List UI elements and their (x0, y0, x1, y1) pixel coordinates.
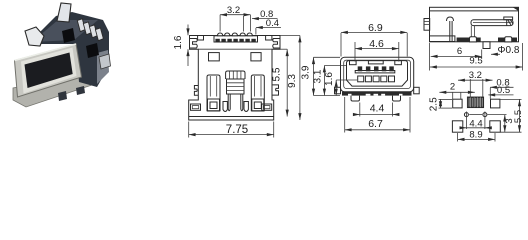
photo top facet highlight (32, 20, 98, 42)
side view shell edge (447, 17, 454, 42)
dimension 4.6 (front) (355, 38, 399, 62)
svg-text:0.5: 0.5 (497, 85, 510, 96)
dimension 6.9 (front) (341, 22, 407, 57)
top view pin tab (214, 33, 258, 42)
front view inner opening (347, 61, 408, 87)
svg-text:Φ0.8: Φ0.8 (498, 45, 520, 56)
photo lead top-left bent (25, 27, 44, 46)
photo black bump 2 (86, 43, 99, 58)
dimension 5.5 (footprint) (499, 99, 524, 132)
photo of mini-USB connector (13, 3, 111, 107)
photo opening rim (21, 48, 77, 94)
dimension 1.6 (front) (314, 72, 358, 96)
dimension 3.2 (top view) (220, 5, 250, 32)
svg-text:6.7: 6.7 (368, 118, 383, 130)
svg-text:1.6: 1.6 (324, 72, 335, 86)
dimension 8.9 (footprint) (458, 129, 495, 141)
dimension 0.8 (top view) (243, 9, 277, 31)
side view body (430, 7, 519, 42)
svg-text:9.5: 9.5 (469, 55, 482, 66)
svg-text:2.5: 2.5 (429, 97, 440, 111)
side view bottom pads (457, 38, 517, 42)
top view interior square right (251, 53, 261, 61)
photo base plate (13, 74, 92, 107)
svg-text:4.4: 4.4 (370, 103, 385, 115)
svg-text:5.5: 5.5 (513, 110, 524, 123)
top view left mid clip (194, 86, 198, 96)
dimension 3.2 (footprint) (458, 70, 493, 97)
dimension 3.1 (front) (312, 66, 346, 96)
dimension 5.5 (top view) (271, 49, 289, 116)
dimension 3.9 (front) (301, 57, 340, 95)
front view shell mid wall (344, 60, 411, 88)
front view inner notch center (368, 61, 383, 64)
front view leg right (393, 96, 401, 101)
front view contacts dark (358, 66, 394, 71)
dimension Φ0.8 (side) (491, 45, 520, 56)
front view contact bar (355, 71, 395, 73)
top view center contact (226, 71, 245, 111)
photo shell top edge highlight (15, 44, 77, 61)
svg-text:9.3: 9.3 (287, 74, 298, 88)
dimension 0.4 (top view) (256, 18, 281, 34)
top view left clip notch (190, 39, 198, 49)
photo right side face (97, 50, 109, 84)
photo black bump 1 (62, 28, 75, 43)
footprint pad upper-left (453, 99, 462, 108)
svg-text:3.9: 3.9 (301, 65, 312, 79)
photo front shell (15, 44, 82, 97)
svg-text:2: 2 (450, 81, 455, 92)
top view cap bottom line (198, 48, 272, 50)
photo lead tall top (57, 3, 71, 22)
top view body outline (189, 36, 280, 121)
front view contact windows (358, 76, 395, 82)
side view front lip (424, 19, 430, 31)
dimension 0.8 (footprint) (490, 77, 514, 98)
side view feet (470, 37, 477, 42)
photo dark plastic body (28, 12, 109, 87)
svg-text:1.6: 1.6 (173, 35, 184, 49)
top view left notch square (198, 36, 204, 41)
top view right clip notch (273, 39, 280, 49)
top view right contact (244, 75, 264, 112)
svg-text:8.9: 8.9 (469, 129, 482, 140)
footprint pad lower-left (452, 121, 462, 132)
svg-text:3.2: 3.2 (227, 5, 240, 16)
dimension 9.5 (side) (430, 43, 523, 71)
front view side tab left (335, 87, 341, 94)
photo opening dark (25, 53, 73, 89)
dimension 2.5 (footprint) (429, 97, 452, 111)
front view shell outline (341, 57, 414, 92)
footprint hole right (469, 112, 487, 118)
side view bottom block (430, 36, 455, 42)
top view corner pad right (262, 104, 272, 110)
photo base feet (58, 91, 67, 101)
top view right mid clip (272, 85, 279, 95)
dimension 9.3 (top view) (280, 36, 302, 121)
svg-text:6: 6 (457, 46, 462, 57)
dimension 1.6 (top view) (173, 25, 190, 67)
dimension 3 (footprint) (488, 115, 515, 133)
top view interior square left (209, 53, 220, 61)
dimension 6.7 (front) (345, 97, 410, 133)
photo right lower lead (99, 54, 111, 69)
svg-text:3.1: 3.1 (312, 69, 323, 83)
footprint center pads (467, 97, 483, 108)
front view inner notch right (395, 61, 402, 65)
footprint pad lower-right (490, 121, 501, 132)
svg-text:5.5: 5.5 (271, 67, 282, 81)
footprint hole left (464, 112, 468, 118)
front view bottom band (342, 92, 412, 96)
top view corner pad left (191, 104, 201, 110)
dimension 6 (side) (431, 46, 482, 59)
dimension 4.4 (front) (353, 103, 400, 117)
footprint pad upper-right (491, 99, 500, 108)
side view contact bar (471, 17, 513, 37)
photo small leads row (77, 19, 103, 41)
dimension 2 (footprint) (439, 81, 474, 99)
front view inner notch left (350, 61, 357, 65)
front view leg left (351, 96, 360, 101)
front view side tab right (414, 87, 420, 94)
side view peg (483, 42, 490, 49)
dimension 4.4 (footprint) (460, 118, 492, 130)
svg-text:7.75: 7.75 (226, 124, 248, 136)
dimension 0.5 (footprint) (488, 85, 513, 96)
top view right notch square (266, 36, 272, 41)
top view left contact (207, 75, 227, 112)
dimension 7.75 (top view) (189, 122, 274, 138)
